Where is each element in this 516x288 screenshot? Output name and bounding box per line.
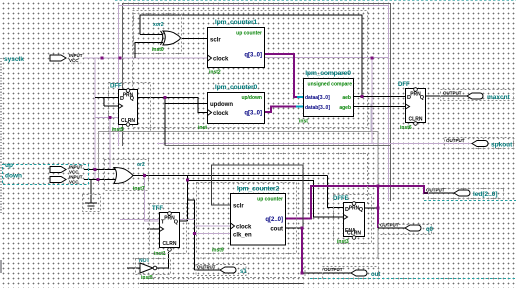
svg-text:inst6: inst6 (400, 125, 412, 131)
svg-text:spkout: spkout (491, 142, 513, 149)
svg-text:inst9: inst9 (212, 248, 224, 254)
svg-text:q[3..0]: q[3..0] (244, 111, 262, 117)
svg-text:inst: inst (299, 119, 308, 125)
svg-text:ageb: ageb (339, 105, 351, 111)
svg-text:Q: Q (174, 220, 179, 226)
svg-text:led[2..0]: led[2..0] (473, 191, 498, 198)
svg-text:D: D (120, 96, 124, 102)
svg-text:clock: clock (213, 57, 229, 63)
svg-text:D: D (407, 95, 411, 101)
svg-text:OUTPUT: OUTPUT (446, 138, 465, 143)
svg-text:Q: Q (420, 95, 425, 101)
svg-text:xor2: xor2 (153, 22, 164, 28)
svg-text:cout: cout (270, 227, 283, 233)
svg-text:up: up (5, 162, 13, 169)
svg-text:up counter: up counter (257, 197, 283, 203)
svg-text:up counter: up counter (236, 31, 262, 37)
svg-text:inst7: inst7 (133, 186, 145, 192)
svg-text:DFF: DFF (398, 82, 410, 88)
svg-text:DFFE: DFFE (333, 196, 349, 202)
svg-text:dataa[3..0]: dataa[3..0] (305, 95, 330, 101)
svg-text:inst0: inst0 (152, 47, 164, 53)
svg-text:up/down: up/down (241, 95, 262, 101)
svg-text:inst5: inst5 (112, 127, 124, 133)
svg-text:OUTPUT: OUTPUT (197, 265, 216, 270)
svg-text:VCC: VCC (69, 180, 79, 185)
svg-text:q0: q0 (426, 227, 434, 233)
svg-text:q[3..0]: q[3..0] (244, 53, 262, 59)
svg-text:lpm_compare0: lpm_compare0 (305, 70, 351, 77)
svg-text:datab[3..0]: datab[3..0] (305, 105, 330, 111)
svg-text:maxcnt: maxcnt (487, 94, 511, 101)
svg-text:inst: inst (198, 125, 207, 131)
svg-text:or2: or2 (137, 162, 145, 168)
svg-text:CLRN: CLRN (163, 241, 177, 247)
svg-text:OUTPUT: OUTPUT (443, 91, 462, 96)
svg-text:VCC: VCC (69, 58, 79, 63)
svg-text:aeb: aeb (342, 95, 351, 101)
svg-text:lpm_counter2: lpm_counter2 (237, 186, 280, 193)
svg-text:lpm_counter0: lpm_counter0 (215, 84, 258, 91)
svg-text:TFF: TFF (152, 206, 163, 212)
svg-text:clock: clock (236, 225, 252, 231)
svg-text:sclr: sclr (233, 204, 244, 210)
svg-text:updown: updown (210, 102, 233, 108)
svg-text:q[2..0]: q[2..0] (265, 217, 283, 223)
svg-text:sclr: sclr (210, 38, 221, 44)
svg-text:Q: Q (130, 96, 135, 102)
svg-text:down: down (5, 173, 22, 180)
svg-text:lpm_counter1: lpm_counter1 (215, 19, 258, 26)
svg-text:inst2: inst2 (209, 70, 221, 76)
svg-text:unsigned compare: unsigned compare (308, 82, 353, 88)
svg-text:Q: Q (359, 207, 364, 213)
svg-text:OUTPUT: OUTPUT (324, 267, 343, 272)
svg-text:DFF: DFF (110, 84, 122, 90)
svg-text:sysclk: sysclk (4, 56, 24, 63)
svg-text:D: D (345, 207, 349, 213)
svg-text:clk_en: clk_en (233, 233, 252, 239)
svg-text:clock: clock (213, 111, 229, 117)
svg-text:inst3: inst3 (337, 239, 349, 245)
